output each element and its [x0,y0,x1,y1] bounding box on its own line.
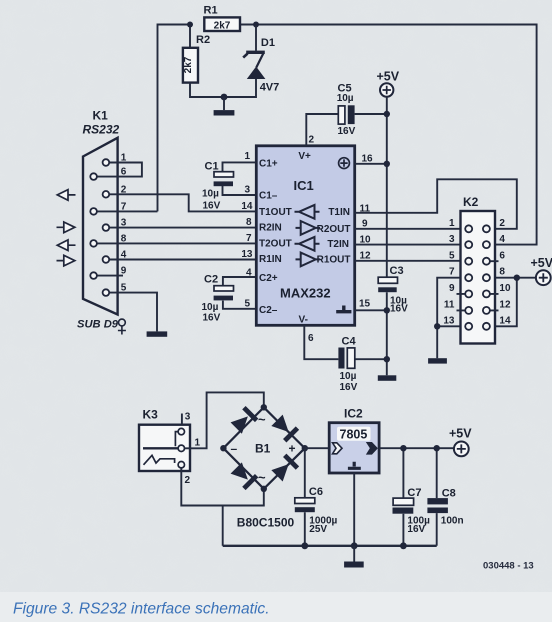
svg-text:7: 7 [449,267,455,278]
capacitor C2 negative plate [214,296,233,301]
power symbol circled plus inside IC1 [339,158,350,169]
svg-text:16V: 16V [407,524,425,535]
svg-text:C6: C6 [309,486,323,498]
connector K2 body [461,211,496,344]
capacitor C2 positive plate [214,286,234,291]
svg-text:13: 13 [443,316,455,327]
wire: K1 pin9 stub [97,275,123,277]
wire: C8 column [436,448,438,546]
wire: D1 cathode lead from top rail [255,25,257,51]
junction dot R1 right / D1 branch [253,22,259,28]
wire: IC1 R1OUT (pin 12) to K2 pin 5 [355,260,466,262]
svg-text:C1+: C1+ [259,159,278,170]
svg-text:8: 8 [499,267,505,278]
K1 pin 8 circle [90,240,97,247]
svg-text:5: 5 [244,299,250,310]
wire: C6 from B1 plus node to ground rail [304,448,306,546]
wire: C1 bottom lead to IC1 pin 3 (C1-) [223,186,257,195]
svg-text:R1IN: R1IN [259,254,282,265]
svg-text:9: 9 [449,283,455,294]
+5V supply symbol right [531,256,552,285]
svg-text:8: 8 [246,217,252,228]
junction dot K2 pin8/+5V [514,275,520,281]
K2 pin 1 circle [465,225,472,232]
svg-text:2: 2 [499,218,505,229]
wire: C3 bottom to ground rail [386,292,388,375]
wire: C1 top lead to IC1 pin 1 (C1+) [223,162,257,171]
K2 pin 10 circle [483,290,490,297]
K3 contact circle pin 2 [178,462,184,468]
svg-text:2: 2 [185,475,191,486]
capacitor C3 negative plate [378,287,397,292]
B1 diode bottom-right (cathode toward right) [271,454,299,482]
svg-text:6: 6 [121,167,127,178]
svg-text:R1: R1 [204,5,218,17]
svg-text:+5V: +5V [531,256,552,270]
wire: K1 pin1 to pin6 bracket [97,163,142,177]
wire: K1 pin8 to IC1 T2OUT (pin 7) [97,242,256,244]
capacitor C5 positive plate [338,106,345,124]
svg-text:MAX232: MAX232 [280,286,331,301]
caption band background [0,592,552,622]
svg-text:1: 1 [121,153,127,164]
svg-text:IC1: IC1 [294,178,314,193]
svg-text:C4: C4 [342,336,357,348]
svg-text:9: 9 [121,266,127,277]
wire: K1 pin2 to IC1 T1OUT (pin 14) [109,194,256,211]
capacitor C4 positive plate [347,348,355,368]
svg-text:2k7: 2k7 [214,21,231,32]
wire: C2 top lead to IC1 pin 4 (C2+) [223,277,256,286]
svg-text:V+: V+ [298,151,311,162]
svg-text:3: 3 [121,218,127,229]
svg-text:~: ~ [258,470,266,485]
K1 pin 9 circle [90,272,97,279]
K1 pin 1 circle [103,159,110,166]
capacitor C6 negative plate [295,507,315,512]
B1 diode top-right (cathode toward right) [271,414,299,442]
junction dot C7 top [400,445,406,451]
K3 sleeve contact zigzag [144,455,175,465]
wire: K2 pin 8 to +5V [490,277,536,279]
wire: K3 pin 1 to B1 top (AC) [185,392,264,448]
junction dot rail/C6 [301,542,308,549]
svg-text:10µ: 10µ [337,93,354,104]
svg-text:T1OUT: T1OUT [259,207,292,218]
capacitor C3 positive plate [378,277,397,283]
IC1 MAX232 body [256,146,354,325]
K2 pin 12 circle [483,307,490,314]
wire: C7 column [402,448,404,546]
wire: IC2 ground pin to rail [353,473,355,546]
capacitor C1 positive plate [214,172,234,177]
svg-text:3: 3 [244,185,250,196]
K2 pin 7 circle [465,274,472,281]
svg-text:K2: K2 [463,195,479,209]
junction dot pin15/rail [384,307,390,313]
K2 pin 9 circle [465,290,472,297]
svg-text:2: 2 [121,184,127,195]
svg-text:–: – [231,442,238,456]
K3 contact circle pin 1 [178,445,184,451]
junction dot ground node under R2/D1 [221,94,228,101]
svg-text:T2OUT: T2OUT [259,239,292,250]
K2 pin 13 circle [465,323,472,330]
ground symbol under K2 [428,358,447,363]
connector K3 body [139,425,190,471]
connector K1 SUB-D9 body [83,138,118,315]
svg-text:1: 1 [195,437,201,448]
svg-text:C1: C1 [205,161,219,173]
svg-text:+: + [289,442,296,456]
svg-text:8: 8 [121,233,127,244]
B1 diode top-left (anode left, cathode toward top) [230,406,258,434]
buffer triangle T1 (points left) [295,205,320,219]
junction dot K2 pin13 wire [434,323,440,329]
svg-text:V-: V- [299,315,308,326]
svg-text:1: 1 [449,218,455,229]
wire: IC1 pin 16 to +5V rail [355,163,387,165]
wire: bottom ground rail [223,545,437,547]
svg-text:~: ~ [258,412,266,427]
junction dot rail/C7 [400,542,407,549]
+5V supply symbol bottom right [449,427,472,457]
svg-text:14: 14 [241,201,253,212]
junction dot B1 right vertex [302,445,308,451]
ground symbol under K1 pin5 [147,331,168,336]
wire: IC1 T1IN (pin 11) from K2 pin 2 [355,179,517,229]
capacitor C7 negative plate [393,508,414,514]
svg-text:6: 6 [499,251,505,262]
wire: IC1 T2IN (pin 10) from K2 pin 3 [355,244,466,246]
ground glyph inside IC1 at pin 15 [336,306,351,312]
svg-text:3: 3 [185,412,191,423]
wire: IC1 pin 15 to rail [355,309,387,311]
paper texture noise [0,0,1,1]
capacitor C8 plate bottom [427,508,448,514]
svg-text:+5V: +5V [449,427,472,441]
K2 pin 8 circle [483,274,490,281]
diode D1 zener diagonal [256,53,263,68]
svg-text:11: 11 [444,300,455,311]
svg-text:K1: K1 [93,109,109,123]
svg-text:D1: D1 [261,37,275,49]
buffer triangle R2 (points right) [296,221,321,235]
svg-text:15: 15 [359,299,371,310]
svg-text:6: 6 [308,333,314,344]
K2 pin 2 circle [483,225,490,232]
K2 pin 11 circle [465,307,472,314]
wire: C4 right plate to rail [355,358,387,360]
wire: B1 plus to IC2 input [305,447,329,449]
bridge rectifier B1 diamond outline [223,407,304,489]
svg-text:5: 5 [449,251,455,262]
svg-text:RS232: RS232 [83,123,120,137]
wire: C5 right plate to +5V rail [355,113,387,115]
svg-text:16V: 16V [203,313,221,324]
junction dot C4/rail [384,356,390,362]
svg-text:R2OUT: R2OUT [317,224,351,235]
K2 pin 14 circle [483,323,490,330]
junction dot R1 left [187,22,193,28]
B1 diode bottom-left (cathode toward bottom) [230,462,258,490]
ground symbol under R2/D1 [214,110,235,115]
svg-text:5: 5 [121,283,127,294]
wire: R2 top lead [189,25,191,48]
svg-text:C3: C3 [390,265,404,277]
wire: ground rail drop from K3/B1 bottom wire [222,506,224,546]
buffer triangle T2 (points left) [295,237,320,251]
wire: node A rail from R1/R2 junction down to K1 pin 7 [158,25,191,212]
svg-text:16V: 16V [338,126,356,137]
svg-text:K3: K3 [143,408,159,422]
capacitor C7 positive plate [393,498,414,505]
buffer triangle R1 (points right) [296,253,321,267]
wire: R2 bottom lead to D1 anode [190,79,256,97]
svg-text:16V: 16V [203,201,221,212]
svg-text:C2: C2 [204,274,218,286]
svg-text:030448 - 13: 030448 - 13 [483,561,534,572]
wire: top rail from R1 right to K2 pin 4 [240,25,537,245]
svg-text:7805: 7805 [340,428,368,442]
svg-text:C2+: C2+ [259,273,278,284]
junction dot C8 top [434,445,440,451]
wire: K1 pin7 to divider rail [97,210,158,212]
wire: K2 pin 14 to +5V junction [490,278,517,327]
K1 pin 6 circle [90,173,97,180]
K1 pin 2 circle [103,191,110,198]
signal arrow left (K1 pin8 row) [57,240,75,251]
K1 pin 4 circle [103,256,110,263]
K2 pin stubs (unconnected pins 6,9,10,11,12) [457,261,499,310]
svg-text:+5V: +5V [377,70,400,84]
svg-text:4: 4 [121,250,127,261]
wire: K1 pin5 to ground [109,293,157,332]
junction dot B1 left vertex [220,445,226,451]
K1 pin 3 circle [103,224,110,231]
svg-text:T1IN: T1IN [328,207,350,218]
wire: K1 pin4 to IC1 R1IN (pin 13) [109,259,256,261]
K3 switch contact from pin 3 [175,432,178,447]
svg-text:16V: 16V [390,304,408,315]
K2 pin 3 circle [465,241,472,248]
svg-text:10: 10 [499,283,511,294]
wire: K3 pin 2 to B1 bottom (AC) [181,468,263,506]
K3 pin 3 stub [181,414,183,425]
svg-text:100n: 100n [441,516,464,527]
svg-text:R2IN: R2IN [259,223,282,234]
svg-text:4V7: 4V7 [260,82,280,94]
K3 contact circle pin 3 [178,428,184,434]
wire: C2 bottom lead to IC1 pin 5 (C2-) [223,301,256,309]
capacitor C5 negative plate [348,105,355,124]
svg-text:10µ: 10µ [340,371,357,382]
svg-text:12: 12 [499,300,511,311]
svg-text:B80C1500: B80C1500 [237,516,295,530]
svg-text:10µ: 10µ [202,189,219,200]
K3 jack center pin line [143,447,178,449]
svg-text:C1–: C1– [259,191,278,202]
svg-text:4: 4 [246,268,252,279]
IC2 output arrow (filled) [367,443,377,454]
wire: IC2 output to +5V [379,447,454,449]
svg-text:IC2: IC2 [344,407,363,421]
ground glyph inside IC2 [348,462,361,469]
ground symbol under C3/C4 rail [378,375,397,381]
signal arrow left (K1 pin2 row) [57,190,75,201]
svg-text:B1: B1 [255,442,271,456]
K2 pin 6 circle [483,258,490,265]
svg-text:7: 7 [121,201,127,212]
diode D1 anode triangle [247,67,266,80]
wire: ground stub under R2/D1 [223,97,225,110]
female connector symbol next to SUB D9 [118,319,126,334]
wire: IC1 pin 2 to C5 left plate [306,114,338,146]
K1 pin 7 circle [90,208,97,215]
junction dot B1 top vertex [261,404,267,410]
svg-text:1: 1 [244,151,250,162]
svg-text:2: 2 [309,135,315,146]
svg-text:Figure 3. RS232 interface sch: Figure 3. RS232 interface schematic. [13,601,270,618]
wire: IC1 R2OUT (pin 9) to K2 pin 1 [355,228,466,230]
diode D1 zener cathode bar [246,51,265,54]
capacitor C6 positive plate [295,498,315,504]
K2 pin 5 circle [465,258,472,265]
capacitor C4 negative plate [338,348,344,369]
IC2 7805 body [329,423,379,473]
svg-text:10µ: 10µ [202,302,219,313]
capacitor C1 negative plate [214,181,233,186]
wire: K2 pin 7 and pin 13 to ground [437,278,465,359]
svg-text:7: 7 [246,233,252,244]
svg-text:C2–: C2– [259,305,278,316]
wire: K1 pin3 to IC1 R2IN (pin 8) [109,227,256,229]
svg-text:T2IN: T2IN [327,239,349,250]
wire: +5V rail down to C3 [386,97,388,278]
svg-text:SUB D9: SUB D9 [77,319,119,331]
svg-text:R2: R2 [196,34,210,46]
svg-text:25V: 25V [309,524,327,535]
resistor R2 [183,48,198,83]
junction dot B1 bottom vertex [261,486,267,492]
svg-text:2k7: 2k7 [183,56,194,73]
junction dot C5/+5V rail [384,111,390,117]
K1 pin 5 circle [103,289,110,296]
IC2 input arrow (open) [333,443,343,454]
junction dot rail/IC2 gnd [351,542,358,549]
svg-text:3: 3 [449,234,455,245]
wire: IC1 pin 6 to C4 left plate [304,325,338,359]
junction dot pin16/+5V rail [384,161,390,167]
svg-text:16V: 16V [340,382,358,393]
svg-text:C7: C7 [407,487,421,499]
svg-text:4: 4 [499,234,505,245]
signal arrow right (K1 pin3 row) [57,222,75,233]
svg-text:13: 13 [241,249,253,260]
wire: ground stub below rail [353,546,355,562]
resistor R1 [204,17,240,31]
+5V supply symbol top [377,70,400,97]
svg-text:C8: C8 [442,488,456,500]
7805 white label box [337,427,371,441]
svg-text:14: 14 [499,316,511,327]
K2 pin 4 circle [483,241,490,248]
capacitor C8 plate top [427,498,448,504]
ground symbol below bottom rail [344,562,364,568]
svg-text:R1OUT: R1OUT [317,255,351,266]
signal arrow right (K1 pin4 row) [57,255,75,266]
